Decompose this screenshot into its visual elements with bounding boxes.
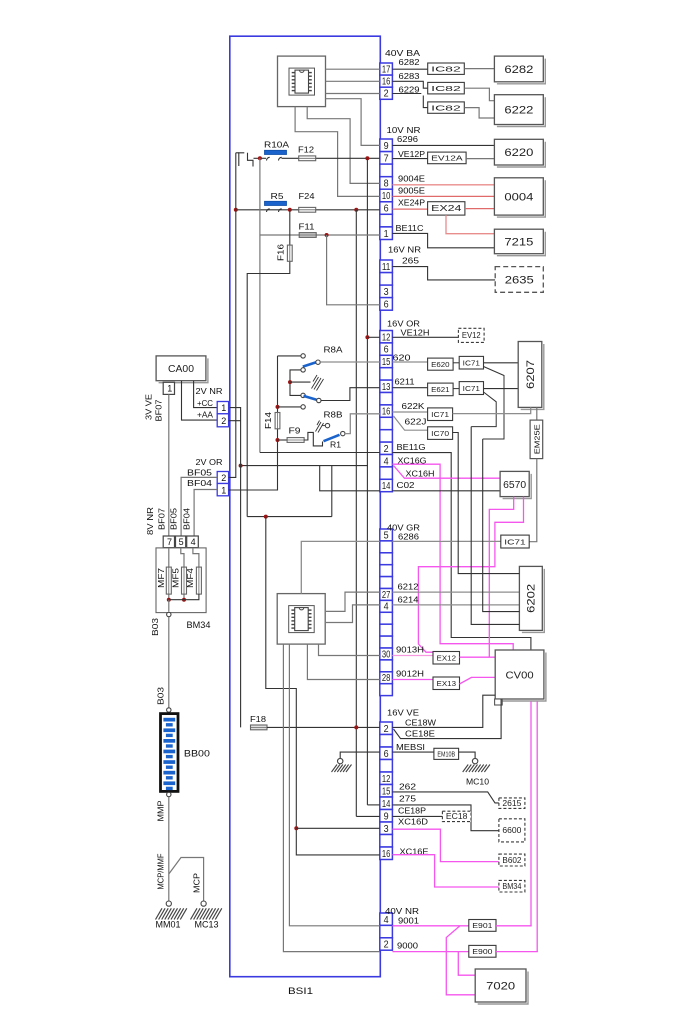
- fuse F14: [275, 413, 280, 429]
- wire E620 to IC71a: [453, 362, 459, 364]
- wire R8A lower common: [290, 370, 301, 396]
- svg-text:EM10B: EM10B: [437, 752, 455, 759]
- wire AA rail horizontal: [241, 465, 368, 467]
- svg-text:EC18: EC18: [446, 812, 468, 821]
- fuse F12: [299, 156, 316, 161]
- junction XC16D: [294, 826, 298, 830]
- wire chip1 to pin2: [326, 93, 380, 95]
- wire CA00 to +AA: [182, 381, 218, 420]
- wire 9000 branch to 7020 magenta: [458, 952, 475, 976]
- svg-text:R10A: R10A: [264, 140, 289, 150]
- interface IC71 a: [459, 356, 483, 369]
- wire CC feed down to F18: [230, 408, 241, 728]
- wire chip2 to pin27: [326, 592, 380, 611]
- svg-text:6283: 6283: [399, 71, 420, 81]
- wire R8A upper blade to pin15: [320, 361, 380, 363]
- device 2615 dashed: [499, 798, 525, 809]
- svg-text:275: 275: [399, 794, 416, 804]
- svg-text:6570: 6570: [503, 480, 526, 491]
- wire pin4 6214 to 6202: [392, 604, 519, 606]
- wire vertical feed to 6202 top: [483, 439, 520, 612]
- device 6282: [497, 59, 545, 84]
- wire MF5: [181, 548, 184, 600]
- svg-text:MC10: MC10: [466, 777, 489, 787]
- svg-text:R8A: R8A: [324, 345, 343, 355]
- svg-text:9: 9: [384, 811, 389, 822]
- svg-text:EV12: EV12: [462, 331, 481, 340]
- pin box 2 AA: [217, 414, 228, 427]
- svg-text:E620: E620: [431, 360, 450, 369]
- actuator hatch R8A: [312, 375, 324, 391]
- wire chip1 to pin16: [326, 80, 380, 82]
- wire BF04 to fuse MF4: [194, 490, 217, 537]
- wire pin12 to EV12: [392, 336, 458, 338]
- svg-text:2: 2: [384, 444, 389, 455]
- svg-text:CV00: CV00: [506, 670, 534, 681]
- svg-text:7: 7: [384, 154, 389, 165]
- wire pin2 9000 to E900 magenta: [392, 951, 468, 953]
- wire pin10 to 0004 red: [392, 195, 494, 197]
- svg-text:R1: R1: [330, 441, 342, 450]
- svg-text:6202: 6202: [526, 584, 538, 613]
- ground circle MC13: [201, 901, 206, 906]
- connector circle B03: [167, 612, 171, 616]
- fuse F9: [287, 438, 304, 443]
- svg-text:5: 5: [179, 537, 184, 547]
- wire pin15 262 to 2615 dashed: [392, 792, 499, 803]
- connector circle battery top: [167, 708, 171, 712]
- svg-text:IC82: IC82: [431, 64, 461, 73]
- device CA00: [159, 358, 208, 382]
- svg-text:9012H: 9012H: [396, 669, 424, 679]
- svg-text:EX12: EX12: [437, 653, 457, 662]
- svg-text:9004E: 9004E: [398, 174, 425, 184]
- wire chip2 to pin4 9001: [289, 644, 379, 926]
- svg-text:2: 2: [384, 89, 389, 100]
- svg-text:9001: 9001: [398, 916, 419, 926]
- svg-text:14: 14: [382, 799, 391, 810]
- svg-text:262: 262: [399, 782, 416, 792]
- svg-text:BF05: BF05: [187, 468, 212, 478]
- junction R5 right F16 branch: [288, 208, 292, 212]
- wire left rail to R5 to F24 to pin6: [236, 209, 380, 211]
- contact circle R8A top: [301, 354, 305, 358]
- ground circle MM01: [166, 901, 171, 906]
- svg-text:16: 16: [382, 407, 391, 418]
- wire pin11 to 2635: [392, 267, 495, 280]
- svg-text:F11: F11: [299, 222, 315, 232]
- svg-text:2V OR: 2V OR: [196, 457, 223, 467]
- pin box 1 BF04: [217, 484, 228, 496]
- svg-text:F14: F14: [264, 411, 273, 429]
- wire chip2 to pin4 6214: [326, 605, 380, 623]
- fuse F11: [299, 233, 316, 238]
- svg-text:EX24: EX24: [431, 204, 462, 213]
- interface EX13: [433, 677, 460, 690]
- wire pin13 to E621: [392, 387, 427, 389]
- CV00 bottom tab: [495, 699, 503, 705]
- junction F11 output: [325, 233, 329, 237]
- svg-text:MM01: MM01: [156, 920, 181, 930]
- wire MF bottoms joined: [169, 594, 199, 600]
- svg-text:9000: 9000: [397, 941, 418, 951]
- wire bracket top to left vertical: [236, 152, 239, 154]
- wire BF04 internal to F14 vertical: [229, 440, 278, 490]
- interface E620: [428, 358, 454, 370]
- wire pin28 to EX13 magenta: [392, 679, 433, 681]
- svg-text:E901: E901: [472, 921, 492, 930]
- wire E901 to CV00 riser magenta: [496, 925, 532, 927]
- junction on R10A wire: [258, 156, 262, 160]
- wire pin9 to 6220: [392, 144, 494, 146]
- wire F11 branch down to pin6 of 16V NR group: [327, 235, 380, 305]
- fuse F18: [251, 725, 268, 730]
- wire junction to pin12: [367, 336, 379, 338]
- battery BB00: [161, 714, 179, 792]
- svg-text:1: 1: [167, 384, 172, 394]
- svg-text:XC16H: XC16H: [406, 469, 435, 479]
- pin box 7: [163, 536, 174, 548]
- wire EX24 down to 7215 red: [446, 215, 494, 234]
- wire EX12 to CV00 magenta: [460, 656, 496, 658]
- wire BF05 into box edge: [229, 476, 230, 478]
- svg-text:16: 16: [382, 849, 391, 860]
- CA00 pin box 1: [163, 382, 174, 394]
- wire rail branch down to lower rail: [331, 466, 333, 517]
- ground MC10: [472, 758, 477, 763]
- svg-text:R5: R5: [271, 191, 284, 201]
- svg-text:6286: 6286: [398, 532, 419, 542]
- wire chip1 bottom to pin8: [307, 107, 380, 184]
- svg-text:9005E: 9005E: [398, 186, 425, 196]
- wire pin2 CE18E diagonal to CV00 bottom: [394, 699, 502, 739]
- wire pin16 XC16E magenta to BM34: [392, 855, 499, 887]
- svg-text:1: 1: [384, 229, 389, 240]
- wire F11 branch to pin1: [260, 234, 380, 236]
- wire junction to actuator: [290, 381, 311, 383]
- wire battery negative down: [168, 797, 170, 902]
- wire IC82c to 6222: [464, 108, 494, 118]
- BSI1 connector pin strip: [380, 63, 393, 951]
- wire IC71a to 6207: [484, 362, 519, 364]
- interface E621: [428, 383, 454, 396]
- svg-text:F9: F9: [289, 426, 301, 436]
- svg-text:3: 3: [384, 824, 389, 835]
- svg-text:F12: F12: [298, 145, 314, 155]
- contact circle R8B top: [325, 423, 329, 427]
- wire F9 staircase to R8B blade: [304, 432, 322, 446]
- svg-text:28: 28: [382, 673, 391, 684]
- svg-text:4: 4: [384, 602, 389, 613]
- interface IC82 a: [428, 63, 465, 74]
- svg-text:BM34: BM34: [187, 620, 211, 630]
- svg-text:MF5: MF5: [171, 567, 180, 588]
- svg-text:9: 9: [384, 141, 389, 152]
- svg-text:2V NR: 2V NR: [196, 386, 223, 396]
- wire B03 down to battery: [168, 617, 170, 708]
- junction R8A common: [288, 380, 292, 384]
- pin box 1 CC: [217, 402, 228, 414]
- relay R10A contacts: [267, 157, 282, 160]
- device B602 dashed: [499, 854, 525, 866]
- contact circle R8A lower: [301, 393, 305, 397]
- wire riser from F12 wire down to pin12 and pin14 275: [366, 158, 368, 805]
- svg-text:BE11G: BE11G: [397, 442, 426, 452]
- svg-text:BF07: BF07: [155, 399, 164, 421]
- svg-text:MCP/MMF: MCP/MMF: [157, 854, 166, 890]
- ic chip U2: [277, 594, 325, 645]
- svg-text:2615: 2615: [502, 799, 522, 808]
- device 6202: [522, 569, 544, 633]
- wire MF4: [193, 548, 199, 594]
- svg-text:MF7: MF7: [157, 567, 166, 588]
- wire pin5 6286 to IC71d: [392, 540, 500, 542]
- svg-text:15: 15: [382, 786, 391, 797]
- wire pin15 to E620: [392, 361, 427, 363]
- svg-text:MF4: MF4: [186, 567, 195, 588]
- wire pin14 C02 to 6570: [392, 490, 500, 492]
- svg-text:XC16D: XC16D: [398, 817, 428, 827]
- BSI1 control unit boundary box: [230, 36, 380, 977]
- svg-text:7215: 7215: [504, 236, 533, 248]
- wire chip1 to pin9 via riser: [326, 99, 380, 146]
- wire IC71b to 6207: [484, 388, 519, 390]
- svg-text:BM34: BM34: [502, 882, 522, 891]
- ground MC13 hatch: [191, 908, 222, 919]
- svg-text:B03: B03: [157, 686, 166, 705]
- svg-text:14: 14: [382, 481, 391, 492]
- device 6220: [497, 142, 545, 167]
- svg-text:IC71: IC71: [431, 410, 449, 419]
- svg-text:16V NR: 16V NR: [388, 245, 421, 255]
- svg-text:8: 8: [384, 179, 389, 190]
- wire pin17 to IC82a: [392, 68, 427, 70]
- wire riser end to pin14: [367, 804, 379, 806]
- wire chip2 to pin28: [307, 644, 379, 679]
- wire pin16 to IC82b: [392, 81, 427, 88]
- wire pin30 to EX12 pink: [392, 655, 433, 657]
- svg-text:15: 15: [382, 357, 391, 368]
- wire R5 junction down through F16 to left rail: [247, 210, 290, 517]
- svg-text:6214: 6214: [398, 595, 419, 605]
- wire 6570 right drop magenta: [418, 497, 523, 653]
- wire IC71b branch diagonal down: [471, 392, 496, 427]
- svg-text:E900: E900: [472, 947, 492, 956]
- svg-text:BB00: BB00: [184, 749, 210, 759]
- svg-text:BF04: BF04: [183, 508, 192, 530]
- svg-text:B03: B03: [151, 617, 160, 636]
- fuse MF7: [166, 567, 171, 594]
- wire EX13 to CV00 magenta diagonal: [460, 677, 496, 684]
- wire IC82b to 6222: [464, 88, 494, 101]
- svg-text:EM25E: EM25E: [533, 424, 542, 454]
- terminal bracket: [239, 153, 253, 167]
- junction pin12: [365, 335, 369, 339]
- pin box 2 BF05: [217, 472, 228, 484]
- junction AA rail: [239, 464, 243, 468]
- svg-text:10: 10: [382, 191, 391, 202]
- wire pin14 275 to 6600 dashed: [392, 805, 499, 831]
- wire branch diagonal to MC13: [169, 858, 204, 902]
- wire left vertical from bracket to BF05: [230, 153, 236, 478]
- wire R10A junction down to BE11G row: [259, 158, 261, 452]
- svg-text:6: 6: [384, 204, 389, 215]
- svg-text:VE12P: VE12P: [398, 149, 425, 159]
- device CV00: [498, 653, 546, 702]
- interface EX24: [428, 202, 465, 215]
- wire BE11G internal: [260, 452, 380, 454]
- wire lower rail down then to XC16 riser: [266, 517, 380, 855]
- device 6600 dashed: [499, 819, 525, 842]
- svg-text:622J: 622J: [405, 417, 427, 427]
- interface EM10B: [434, 748, 459, 759]
- actuator hatch R8B: [316, 421, 324, 433]
- svg-text:16V VE: 16V VE: [387, 708, 419, 718]
- ic chip U1: [278, 56, 326, 107]
- wire pin4 XC16H diagonal to 6570 magenta: [394, 466, 501, 479]
- interface EX12: [433, 652, 460, 665]
- svg-text:4: 4: [384, 456, 389, 467]
- wire IC71c to 6207 bottom: [453, 407, 531, 413]
- svg-text:BF07: BF07: [158, 508, 167, 530]
- svg-text:6600: 6600: [502, 826, 521, 835]
- wire chip1 bottom to pin10: [295, 107, 380, 197]
- svg-text:MMP: MMP: [157, 800, 166, 822]
- svg-text:MC13: MC13: [195, 920, 219, 930]
- ground MM01 hatch: [156, 908, 187, 919]
- wire EM10B to ground MC10: [459, 752, 476, 758]
- svg-text:BF05: BF05: [170, 508, 179, 530]
- wire R8A lower blade to pin13: [321, 388, 380, 401]
- svg-text:4: 4: [384, 915, 389, 926]
- svg-text:6211: 6211: [395, 377, 415, 387]
- interface IC82 b: [428, 82, 465, 94]
- interface IC82 c: [428, 102, 465, 113]
- wire pin2 BE11G to CV00 via vertical: [392, 453, 531, 650]
- svg-text:IC70: IC70: [431, 429, 449, 438]
- wire R8A top contact to F14 vertical: [278, 355, 301, 357]
- svg-text:IC82: IC82: [431, 103, 461, 112]
- wire pin6 to EX24 red: [392, 208, 427, 210]
- device 7020: [478, 972, 528, 1005]
- svg-text:6296: 6296: [397, 134, 418, 144]
- wire pin2 CE18W to CV00 tab: [392, 695, 495, 727]
- wire pin27 6212 to 6202: [392, 591, 519, 593]
- svg-text:+CC: +CC: [197, 398, 213, 408]
- fuse MF4: [196, 567, 201, 594]
- svg-text:27: 27: [382, 590, 391, 601]
- wire MF7: [168, 548, 170, 600]
- wire F14 vertical: [277, 356, 279, 440]
- wire riser end to pin9: [356, 815, 380, 817]
- svg-text:XE24P: XE24P: [398, 198, 425, 208]
- svg-text:13: 13: [382, 382, 391, 393]
- svg-text:6282: 6282: [504, 64, 533, 76]
- wire pin6 MEBSI to internal ground: [340, 752, 380, 758]
- wire IC82a to 6282: [464, 68, 494, 70]
- connector circle battery bottom: [167, 792, 171, 796]
- wire E900 to CV00 riser magenta: [496, 951, 538, 953]
- svg-text:VE12H: VE12H: [401, 328, 430, 338]
- relay R10A coil bar: [265, 150, 287, 154]
- wire pin4 XC16G diagonal and long vertical magenta: [392, 464, 513, 650]
- svg-text:F18: F18: [250, 714, 266, 724]
- svg-text:6220: 6220: [504, 147, 533, 159]
- wire pin7 to EV12A: [392, 158, 427, 160]
- wire F18 to pin2 CE18W: [267, 726, 380, 728]
- svg-text:6212: 6212: [398, 582, 419, 592]
- junction pin7 wire riser: [365, 156, 369, 160]
- svg-text:IC71: IC71: [463, 358, 480, 367]
- device 2635 dashed: [495, 267, 543, 293]
- junction F18 riser: [354, 725, 358, 729]
- interface E901: [469, 920, 496, 932]
- device 0004: [497, 180, 545, 217]
- svg-text:IC82: IC82: [431, 84, 461, 93]
- svg-text:17: 17: [382, 65, 391, 76]
- svg-text:CE18W: CE18W: [405, 718, 436, 728]
- wire 6570 left drop magenta: [489, 497, 513, 658]
- svg-text:EX13: EX13: [437, 679, 457, 688]
- svg-text:E621: E621: [431, 385, 450, 394]
- wire pin8 to 0004 red: [392, 184, 494, 186]
- svg-text:16: 16: [382, 77, 391, 88]
- interface IC71 d: [501, 535, 529, 548]
- svg-text:40V NR: 40V NR: [385, 906, 419, 916]
- wire pin2 AA into box: [229, 420, 230, 422]
- svg-text:2: 2: [221, 473, 226, 483]
- wire CA00 pin1 BF07 down: [168, 394, 170, 536]
- contact circle below R8A: [301, 405, 305, 409]
- wire junction to pin3 XC16D: [296, 827, 380, 829]
- interface EC18 dashed: [442, 811, 471, 821]
- interface IC70: [428, 427, 453, 440]
- svg-text:8V NR: 8V NR: [146, 507, 155, 535]
- wire pin16 diagonal to IC70: [394, 416, 428, 430]
- interface EV12 dashed: [458, 328, 484, 342]
- wire CV00 to E900 magenta vertical: [536, 702, 538, 952]
- device 6207: [521, 344, 544, 409]
- svg-text:6207: 6207: [525, 360, 537, 389]
- svg-text:7: 7: [167, 537, 172, 547]
- svg-text:11: 11: [382, 262, 391, 273]
- svg-text:620: 620: [393, 353, 411, 363]
- svg-text:B602: B602: [502, 856, 521, 865]
- wire chip1 to pin17: [326, 68, 380, 70]
- wire CA00 to +CC: [194, 381, 218, 408]
- interface EM25E vertical: [530, 420, 543, 459]
- junction MF7 bottom: [167, 598, 171, 602]
- interface EV12A: [428, 152, 467, 164]
- relay R5 coil bar: [265, 201, 287, 205]
- wire E621 to IC71b: [453, 388, 459, 390]
- wire BM34 output down: [168, 600, 170, 612]
- svg-text:2635: 2635: [505, 274, 534, 286]
- svg-text:CE18P: CE18P: [398, 806, 426, 816]
- svg-text:6222: 6222: [504, 104, 533, 116]
- svg-text:CA00: CA00: [168, 364, 195, 375]
- svg-text:EV12A: EV12A: [431, 154, 464, 163]
- svg-text:IC71: IC71: [504, 537, 525, 546]
- contact circle R8A upper right: [316, 360, 320, 364]
- pin box 4: [187, 536, 199, 548]
- svg-text:12: 12: [382, 332, 391, 343]
- wire pin9 to EC18: [392, 815, 442, 817]
- svg-text:BF04: BF04: [187, 478, 212, 488]
- fuse F24: [299, 207, 316, 212]
- interface E900: [469, 945, 496, 957]
- wire pin4 9001 to E901 magenta: [392, 925, 468, 927]
